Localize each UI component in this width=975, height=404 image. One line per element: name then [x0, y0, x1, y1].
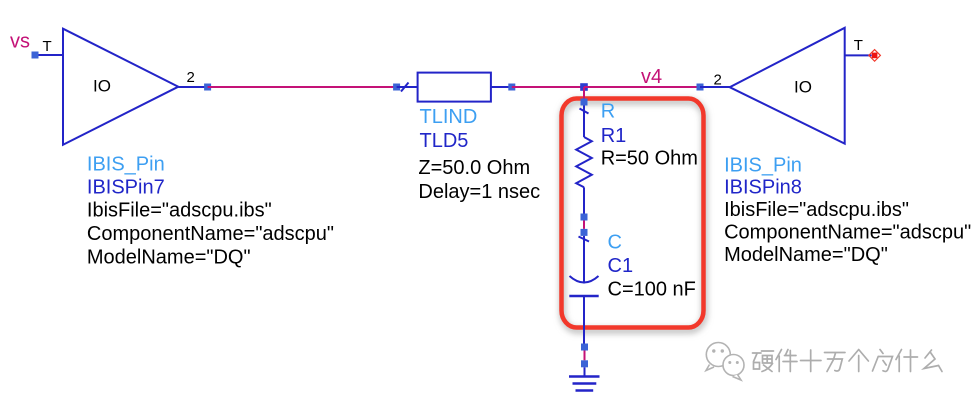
glyph 万: [825, 353, 846, 372]
watermark text 硬件十万个为什么 (stroke approximation): [753, 350, 943, 372]
glyph 个: [849, 350, 868, 372]
svg-text:ComponentName="adscpu": ComponentName="adscpu": [87, 223, 334, 245]
svg-text:IBIS_Pin: IBIS_Pin: [724, 155, 802, 177]
pin 2 of IBISPin7: [178, 69, 211, 91]
svg-text:ModelName="DQ": ModelName="DQ": [87, 247, 251, 269]
svg-text:ComponentName="adscpu": ComponentName="adscpu": [724, 222, 971, 244]
pin 2 of IBISPin8: [697, 72, 731, 91]
svg-text:T: T: [854, 37, 863, 54]
annotation highlight box: [562, 99, 704, 328]
capacitor C1 body: [569, 276, 598, 296]
svg-text:vs: vs: [10, 31, 30, 53]
svg-text:2: 2: [714, 72, 722, 89]
svg-text:2: 2: [187, 69, 195, 86]
glyph 什: [896, 350, 918, 372]
glyph 十: [801, 350, 822, 372]
pin 2 of R1: [581, 187, 588, 220]
svg-text:Z=50.0 Ohm: Z=50.0 Ohm: [418, 157, 530, 179]
watermark logo (wechat bubbles): [706, 343, 744, 381]
svg-text:TLD5: TLD5: [420, 130, 469, 152]
buffer IBISPin7 (IO): [63, 29, 178, 145]
svg-text:R1: R1: [601, 125, 627, 147]
port terminal marker (red diamond): [869, 50, 881, 62]
transmission line TLD5 body: [418, 73, 491, 102]
glyph 硬: [753, 351, 774, 372]
svg-text:IO: IO: [93, 77, 111, 96]
wire net C1 to ground: [584, 351, 586, 361]
svg-text:v4: v4: [641, 66, 662, 88]
pin 1 of C1 with tick: [579, 229, 590, 284]
wire net vs (IBISPin7 pin2 to TLD5 pin1): [208, 86, 397, 88]
svg-text:IBIS_Pin: IBIS_Pin: [87, 154, 165, 176]
pin 1 of R1 with tick: [580, 99, 589, 138]
buffer IBISPin8 (IO): [730, 28, 845, 144]
svg-text:IBISPin8: IBISPin8: [724, 177, 802, 199]
pin 1 of TLD5 with tick: [393, 83, 418, 92]
svg-text:IbisFile="adscpu.ibs": IbisFile="adscpu.ibs": [87, 200, 272, 222]
svg-text:C1: C1: [608, 255, 634, 277]
svg-text:R=50 Ohm: R=50 Ohm: [601, 148, 698, 170]
svg-text:C=100 nF: C=100 nF: [608, 279, 696, 301]
glyph 么: [924, 350, 942, 372]
svg-text:Delay=1 nsec: Delay=1 nsec: [418, 181, 540, 203]
glyph 件: [776, 350, 797, 372]
svg-text:IbisFile="adscpu.ibs": IbisFile="adscpu.ibs": [724, 199, 909, 221]
pin T of IBISPin7: [32, 38, 64, 59]
ground: [569, 367, 600, 390]
wire net v4 (junction to IBISPin8 pin2): [584, 86, 700, 88]
svg-text:ModelName="DQ": ModelName="DQ": [724, 244, 888, 266]
svg-text:TLIND: TLIND: [420, 106, 478, 128]
wire net v4 drop (junction to R1 pin1): [583, 87, 585, 99]
svg-text:R: R: [601, 101, 615, 123]
svg-text:C: C: [608, 232, 622, 254]
node v4 junction: [580, 83, 588, 91]
glyph 为: [873, 350, 893, 372]
pin 2 of TLD5: [491, 84, 515, 91]
ground pin square: [581, 360, 588, 367]
svg-text:IO: IO: [794, 78, 812, 97]
pin 2 of C1: [581, 296, 588, 351]
svg-text:IBISPin7: IBISPin7: [87, 177, 165, 199]
wire net R1 to C1: [583, 221, 585, 229]
wire net v4 (TLD5 pin2 to junction): [512, 86, 584, 88]
svg-text:T: T: [43, 38, 52, 55]
resistor R1 body: [576, 137, 592, 187]
pin T of IBISPin8: [845, 37, 872, 56]
